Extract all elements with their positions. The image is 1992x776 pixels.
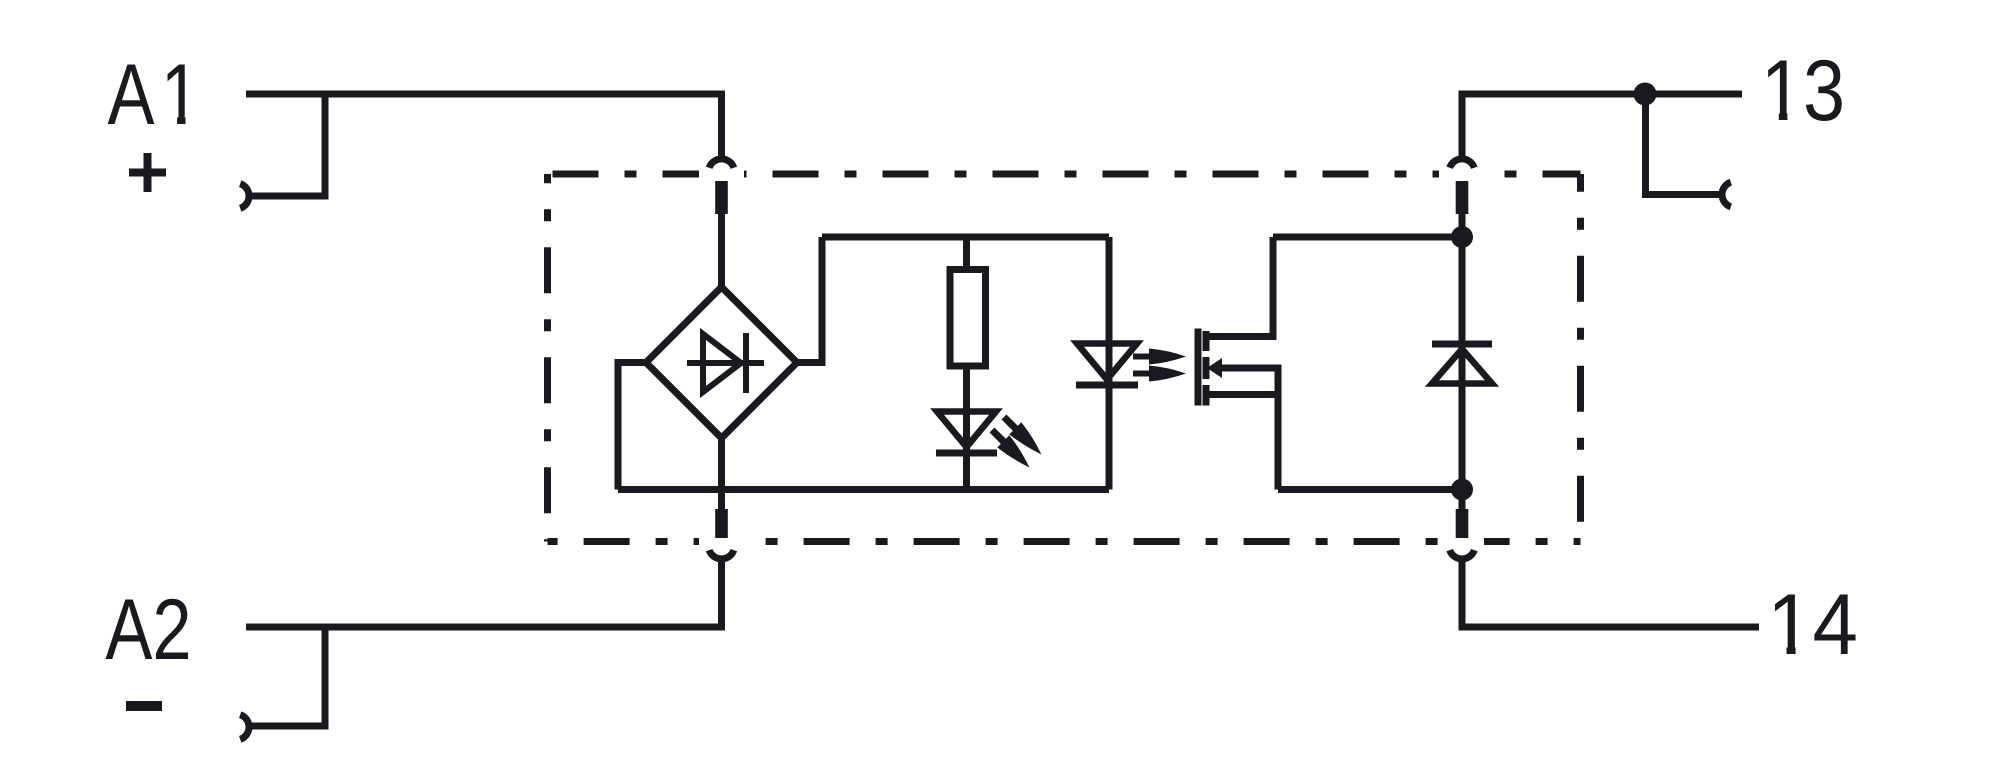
plug contact socket, output top	[1450, 159, 1475, 168]
plug contact socket, input top	[709, 159, 734, 168]
wire resistor to LED	[963, 369, 970, 490]
MOSFET drain stub	[1206, 237, 1273, 337]
MOSFET body stub with arrow	[1212, 368, 1278, 490]
wire source to node	[1278, 486, 1462, 493]
bridge inner diode	[687, 333, 764, 393]
wire output bottom to 14	[1462, 560, 1759, 627]
LED status cathode bar	[936, 450, 997, 457]
terminal 13 (socket half-circle)	[1722, 182, 1731, 207]
wire to resistor	[963, 237, 970, 266]
LED status triangle	[937, 412, 996, 448]
wire drain to node	[1273, 234, 1462, 241]
MOSFET gate bar	[1195, 329, 1202, 406]
wire A2 terminal stub	[252, 627, 325, 726]
plug contact socket, input bottom	[709, 550, 734, 559]
wire 13 terminal stub	[1646, 94, 1723, 195]
opto arrow 1	[1133, 349, 1186, 365]
wire bridge right branch	[797, 237, 822, 363]
opto arrow 2	[1133, 366, 1186, 382]
wire top inner	[822, 234, 1109, 241]
svg-text:A: A	[107, 46, 155, 142]
LED optocoupler triangle	[1077, 344, 1137, 380]
junction node 13	[1634, 83, 1657, 106]
plus sign	[129, 153, 166, 192]
svg-text:1: 1	[161, 46, 200, 142]
plug contact pin, input top	[715, 181, 728, 214]
wire bottom inner	[618, 486, 1109, 493]
junction node bottom	[1451, 479, 1473, 501]
LED optocoupler cathode bar	[1076, 382, 1138, 389]
plug contact pin, output bottom	[1456, 509, 1469, 538]
LED optocoupler vertical wire	[1106, 237, 1113, 490]
wire bridge left branch	[618, 363, 646, 490]
terminal A1 (socket half-circle)	[240, 184, 249, 209]
LED status arrow 1	[998, 411, 1047, 460]
module boundary (dash-dot box)	[548, 174, 1581, 542]
wire output top to 13	[1462, 94, 1742, 159]
wire A2 bottom	[246, 560, 722, 627]
plug contact pin, output top	[1456, 181, 1469, 214]
output vertical wire	[1459, 211, 1466, 512]
wire A1 terminal stub	[252, 94, 325, 196]
plug contact socket, output bottom	[1450, 550, 1475, 559]
terminal A2 (socket half-circle)	[240, 715, 249, 740]
free-wheeling diode triangle	[1432, 349, 1492, 384]
resistor	[950, 270, 986, 367]
MOSFET source stub	[1206, 391, 1278, 398]
LED status arrow 2	[986, 424, 1035, 473]
bridge rectifier	[646, 287, 797, 438]
wire bridge bottom	[718, 438, 725, 510]
minus sign	[126, 701, 162, 711]
glyph serif masks	[165, 112, 1810, 657]
MOSFET channel segments	[1203, 331, 1210, 351]
svg-text:14: 14	[1767, 576, 1858, 672]
junction node top	[1451, 226, 1473, 248]
free-wheeling diode bar	[1432, 341, 1492, 348]
plug contact pin, input bottom	[715, 509, 728, 538]
svg-text:A2: A2	[105, 581, 191, 677]
svg-text:13: 13	[1761, 44, 1845, 140]
wire A1 top	[246, 94, 722, 159]
wire pin to bridge	[718, 211, 725, 287]
